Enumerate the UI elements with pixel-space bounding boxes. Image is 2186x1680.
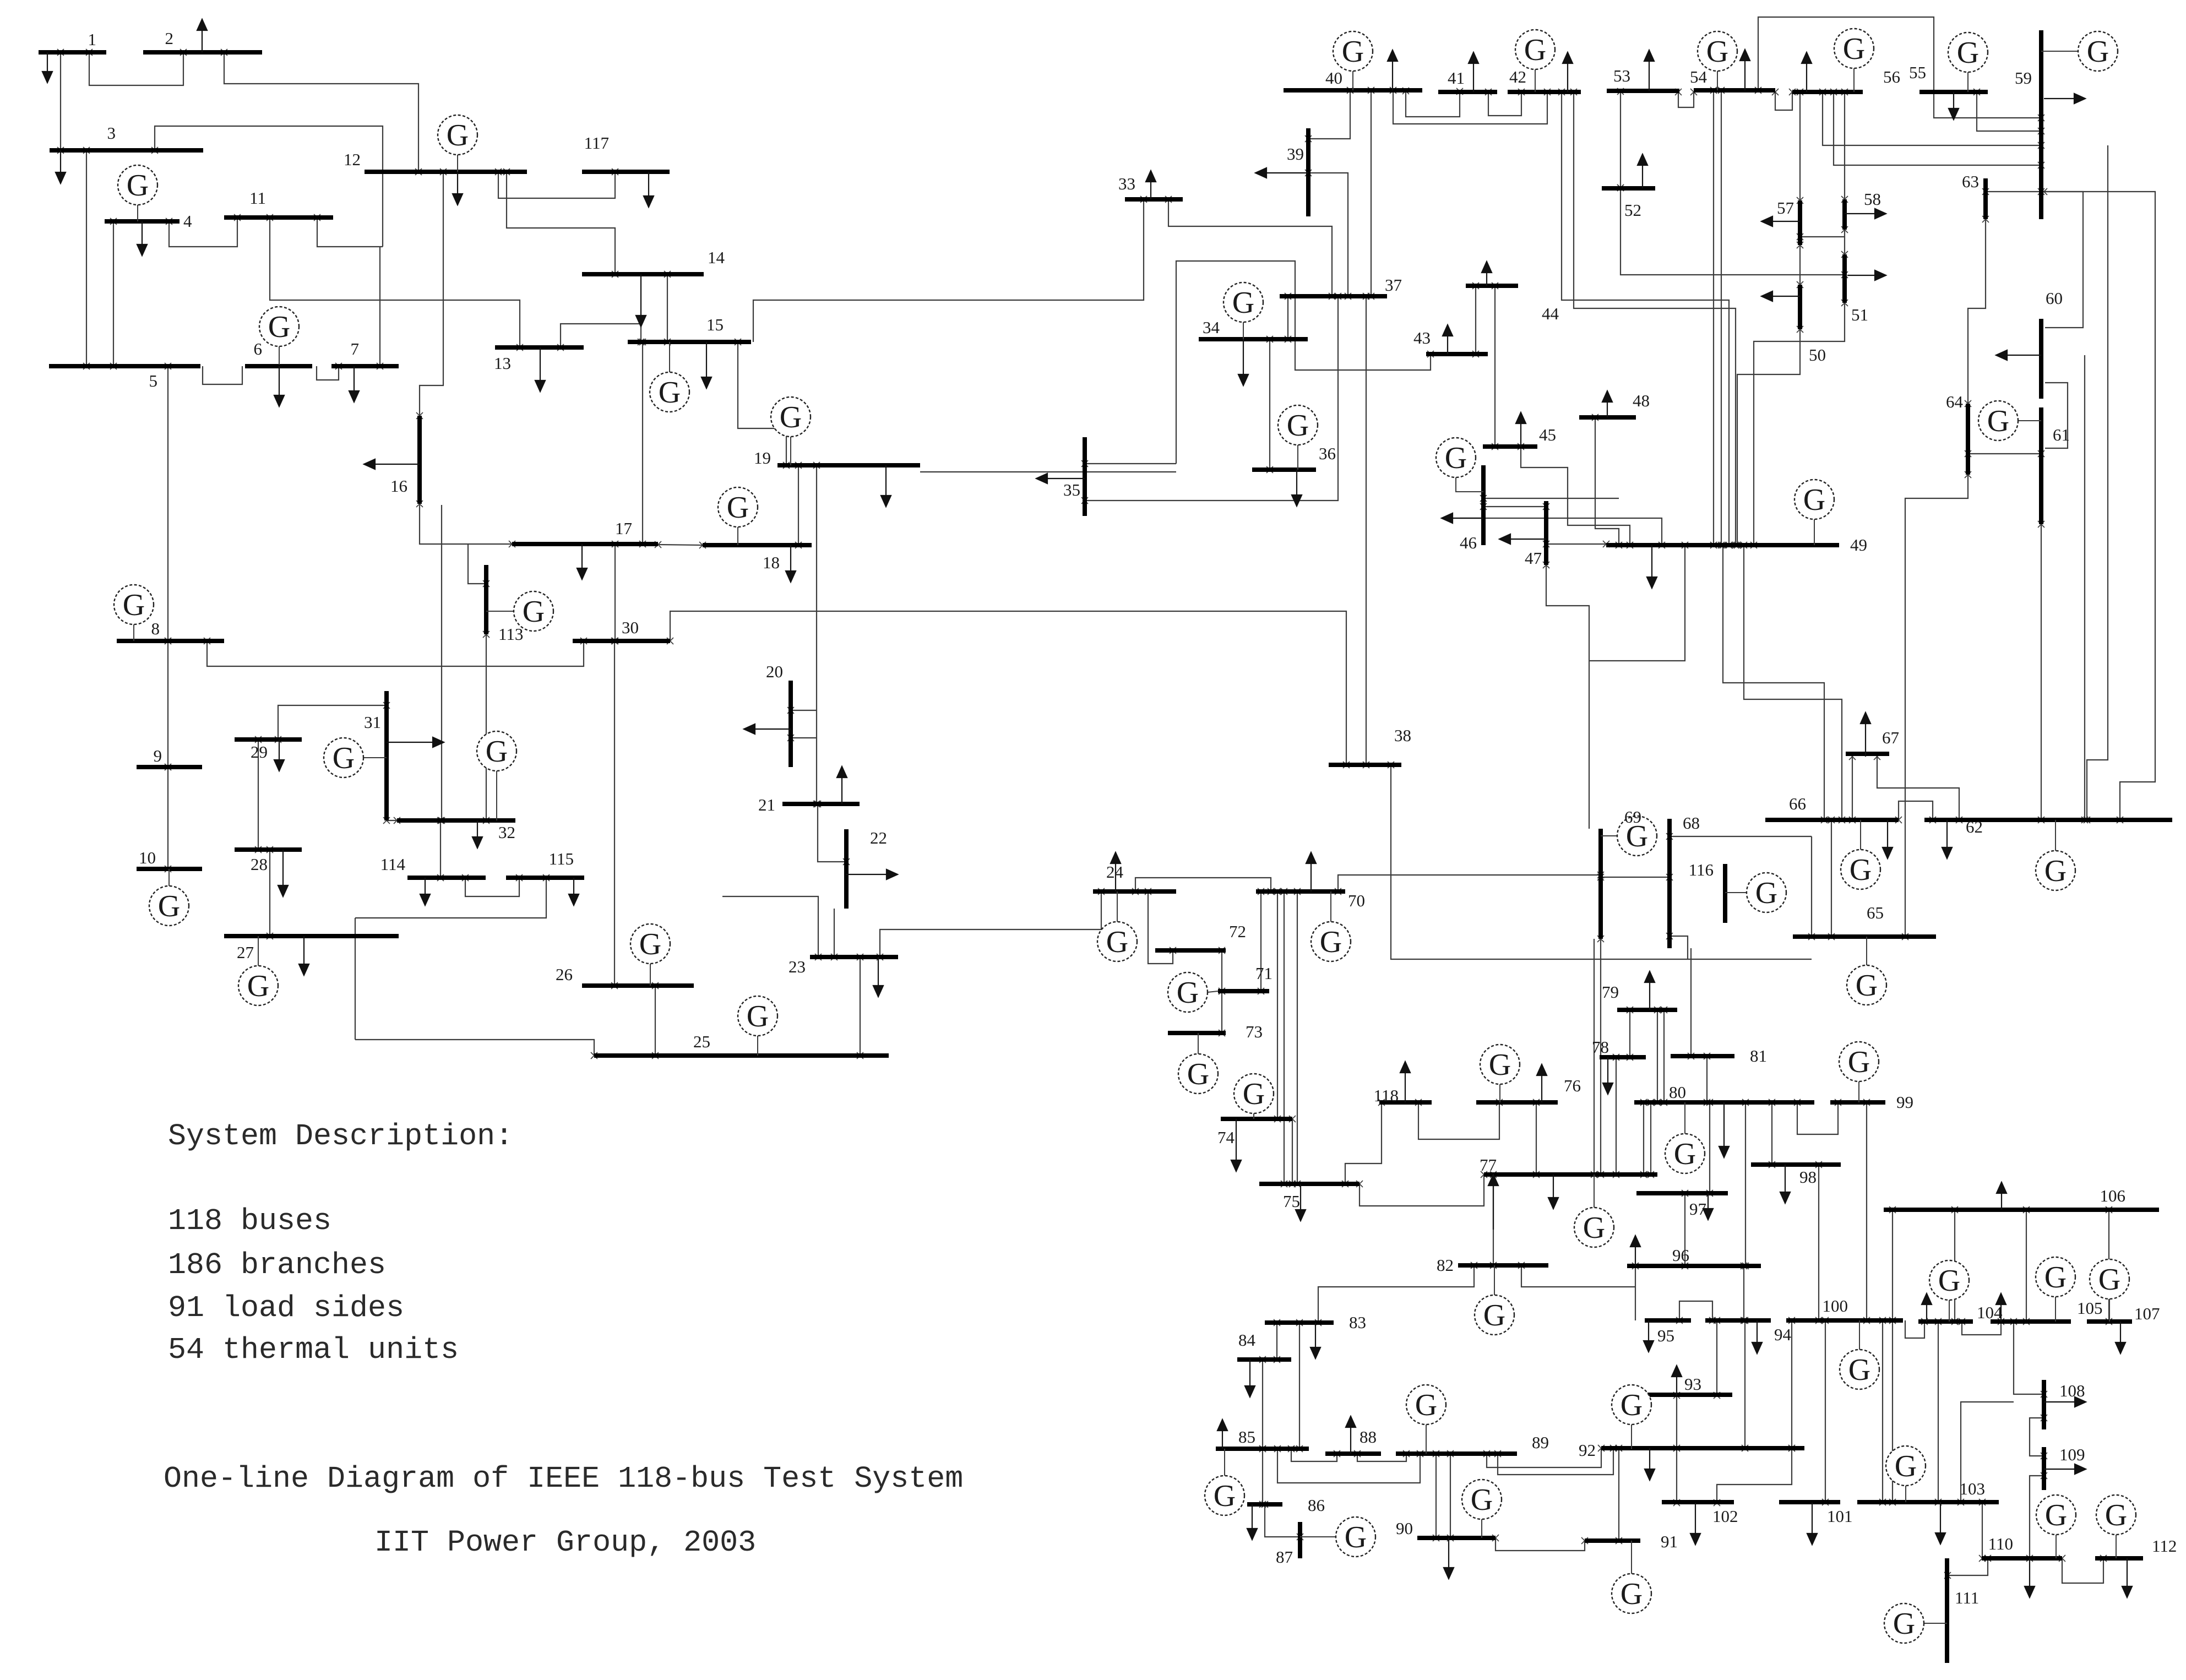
load arrow xyxy=(142,221,143,244)
bus 44 xyxy=(1466,284,1518,288)
svg-text:115: 115 xyxy=(549,849,574,868)
svg-text:G: G xyxy=(247,969,269,1003)
svg-text:G: G xyxy=(1850,853,1872,887)
svg-text:24: 24 xyxy=(1106,862,1124,882)
svg-text:G: G xyxy=(1621,1388,1643,1422)
svg-text:G: G xyxy=(2098,1263,2120,1297)
wire w42 xyxy=(816,465,817,804)
bus 41 xyxy=(1438,90,1497,94)
bus 81 xyxy=(1671,1054,1734,1058)
bus 40 xyxy=(1284,88,1422,93)
bus 102 xyxy=(1662,1500,1734,1504)
svg-text:72: 72 xyxy=(1229,922,1246,941)
svg-text:98: 98 xyxy=(1799,1167,1817,1187)
svg-text:111: 111 xyxy=(1955,1588,1979,1607)
svg-text:17: 17 xyxy=(615,519,632,538)
svg-text:G: G xyxy=(1755,876,1777,910)
wire w150 xyxy=(1866,1102,1867,1320)
wire w58 xyxy=(1371,90,1372,296)
wire w155 xyxy=(1265,1504,1300,1537)
wire w35 xyxy=(387,820,397,821)
wire w3 xyxy=(86,150,87,366)
load arrow xyxy=(279,740,280,760)
wire w122 xyxy=(1284,891,1285,1184)
load arrow xyxy=(755,728,791,730)
load arrow xyxy=(477,820,478,837)
svg-text:45: 45 xyxy=(1539,425,1556,444)
bus 68 xyxy=(1667,819,1672,948)
svg-text:G: G xyxy=(2044,1260,2067,1295)
wire w100 xyxy=(2084,355,2085,820)
bus 96 xyxy=(1627,1264,1761,1268)
wire w48 xyxy=(880,891,1101,957)
generator G73 xyxy=(1198,1033,1199,1054)
bus 45 xyxy=(1483,444,1537,449)
bus 2 xyxy=(143,50,262,55)
bus 4 xyxy=(105,219,180,224)
bus 32 xyxy=(397,818,515,823)
wire w117 xyxy=(1135,878,1271,891)
wire w77 xyxy=(1713,90,1714,545)
bus 42 xyxy=(1508,90,1581,94)
wire w143 xyxy=(1743,1266,1744,1320)
svg-text:43: 43 xyxy=(1413,328,1431,347)
load arrow xyxy=(1115,863,1116,891)
load arrow xyxy=(354,366,355,391)
generator G62 xyxy=(2055,820,2056,851)
svg-text:G: G xyxy=(1843,32,1865,66)
generator G71 xyxy=(1208,991,1218,992)
wire w134 xyxy=(1629,1010,1630,1057)
wire w142 xyxy=(1635,1266,1636,1320)
wire w95 xyxy=(2045,192,2083,328)
wire w83 xyxy=(1977,92,2041,131)
svg-text:42: 42 xyxy=(1509,67,1526,86)
wire w55 xyxy=(1085,296,1338,501)
wire w50 xyxy=(1168,199,1332,296)
wire w89 xyxy=(1799,245,1801,285)
wire w78 xyxy=(1721,90,1722,545)
load arrow xyxy=(1520,423,1521,447)
svg-text:G: G xyxy=(1483,1298,1505,1333)
svg-text:95: 95 xyxy=(1657,1326,1674,1345)
generator G24 xyxy=(1117,891,1118,922)
generator G12 xyxy=(457,155,458,172)
bus 8 xyxy=(117,639,224,643)
svg-text:13: 13 xyxy=(494,354,511,373)
svg-text:11: 11 xyxy=(249,188,266,208)
wire w152 xyxy=(1299,1323,1300,1449)
svg-text:77: 77 xyxy=(1480,1155,1497,1175)
svg-text:14: 14 xyxy=(708,248,725,267)
generator G105 xyxy=(2055,1297,2056,1322)
wire w144 xyxy=(1684,1193,1685,1266)
load arrow xyxy=(1847,275,1875,276)
wire w163 xyxy=(1496,1538,1585,1551)
load arrow xyxy=(1252,1504,1253,1529)
svg-text:G: G xyxy=(1848,1353,1870,1387)
wire w105 xyxy=(1831,820,1832,937)
wire w16 xyxy=(507,172,615,274)
generator G74 xyxy=(1253,1113,1254,1119)
wire w11 xyxy=(167,366,168,641)
svg-text:15: 15 xyxy=(706,315,724,334)
wire w139 xyxy=(1493,1175,1494,1265)
svg-text:G: G xyxy=(1489,1048,1511,1082)
load arrow xyxy=(790,545,791,571)
generator G107 xyxy=(2109,1299,2110,1322)
bus 114 xyxy=(407,876,486,880)
svg-text:54 thermal units: 54 thermal units xyxy=(168,1333,459,1367)
wire w129 xyxy=(1360,1175,1484,1206)
load arrow xyxy=(1453,518,1483,519)
bus 10 xyxy=(137,867,202,871)
load arrow xyxy=(1695,1503,1696,1534)
svg-text:36: 36 xyxy=(1319,444,1336,463)
wire w40 xyxy=(355,1040,594,1056)
wire w120 xyxy=(1600,939,1601,1175)
svg-text:117: 117 xyxy=(584,133,609,153)
svg-text:G: G xyxy=(1187,1057,1209,1091)
svg-text:G: G xyxy=(1232,286,1254,320)
bus 117 xyxy=(582,170,670,174)
load arrow xyxy=(573,878,574,894)
wire w132 xyxy=(1536,1102,1537,1175)
wire w147 xyxy=(1771,1102,1772,1165)
bus 31 xyxy=(384,691,389,820)
load arrow xyxy=(2000,1304,2002,1322)
wire w22 xyxy=(642,342,643,544)
svg-text:25: 25 xyxy=(693,1032,710,1051)
generator G8 xyxy=(133,624,134,641)
svg-text:113: 113 xyxy=(498,624,523,644)
bus 97 xyxy=(1636,1191,1728,1195)
load arrow xyxy=(1607,402,1608,417)
wire w118 xyxy=(1148,891,1173,964)
svg-text:G: G xyxy=(2044,854,2067,888)
bus 103 xyxy=(1857,1500,1999,1504)
svg-text:48: 48 xyxy=(1633,391,1650,410)
wire w93 xyxy=(1754,303,1845,545)
svg-text:19: 19 xyxy=(754,448,771,467)
generator G66 xyxy=(1860,820,1861,850)
wire w82 xyxy=(1758,17,2041,118)
wire w181 xyxy=(2014,1322,2044,1394)
generator G113 xyxy=(486,611,514,612)
wire w51 xyxy=(753,199,1144,342)
wire w53 xyxy=(1176,261,1431,464)
wire w7 xyxy=(113,221,114,366)
svg-text:52: 52 xyxy=(1624,200,1641,220)
svg-text:6: 6 xyxy=(254,339,263,358)
svg-text:G: G xyxy=(639,927,661,961)
svg-text:2: 2 xyxy=(165,29,174,48)
bus 74 xyxy=(1221,1117,1292,1121)
bus 29 xyxy=(235,737,302,742)
bus 56 xyxy=(1792,90,1863,94)
svg-text:34: 34 xyxy=(1203,318,1220,337)
svg-text:22: 22 xyxy=(870,828,887,847)
load arrow xyxy=(375,464,420,465)
wire w185 xyxy=(1938,1322,1939,1502)
wire w12 xyxy=(167,641,168,767)
load arrow xyxy=(1296,470,1297,495)
wire w39 xyxy=(355,878,546,918)
bus 87 xyxy=(1298,1522,1302,1558)
bus 11 xyxy=(224,215,333,220)
wire w19 xyxy=(561,324,641,347)
generator G61 xyxy=(2018,420,2041,421)
generator G26 xyxy=(650,964,651,986)
svg-text:G: G xyxy=(1987,404,2009,438)
wire w161 xyxy=(1487,1448,1601,1467)
bus 85 xyxy=(1216,1447,1309,1451)
load arrow xyxy=(1649,982,1650,1010)
wire w62 xyxy=(1562,92,1729,545)
wire w15 xyxy=(498,172,615,198)
svg-text:IIT Power Group, 2003: IIT Power Group, 2003 xyxy=(374,1525,756,1560)
wire w102 xyxy=(2087,145,2108,820)
bus 48 xyxy=(1579,415,1636,420)
wire w34 xyxy=(269,850,270,936)
svg-text:1: 1 xyxy=(88,30,97,49)
generator G70 xyxy=(1330,891,1331,922)
svg-text:62: 62 xyxy=(1966,817,1983,836)
bus 54 xyxy=(1694,88,1775,93)
bus 69 xyxy=(1598,829,1603,939)
svg-text:87: 87 xyxy=(1276,1547,1293,1567)
load arrow xyxy=(540,347,541,380)
generator G49 xyxy=(1814,519,1815,545)
wire w0 xyxy=(89,52,183,85)
bus 64 xyxy=(1966,404,1970,475)
svg-text:G: G xyxy=(780,400,802,434)
bus 110 xyxy=(1982,1556,2062,1561)
wire w80 xyxy=(1678,92,1694,107)
svg-text:System Description:: System Description: xyxy=(168,1119,513,1154)
svg-text:81: 81 xyxy=(1750,1046,1767,1065)
svg-text:91: 91 xyxy=(1661,1532,1678,1551)
generator G100 xyxy=(1859,1320,1860,1350)
generator G92 xyxy=(1631,1425,1632,1449)
bus 88 xyxy=(1325,1451,1381,1456)
bus 23 xyxy=(810,955,898,959)
wire w24 xyxy=(798,465,799,545)
wire w41 xyxy=(655,986,656,1056)
wire w54 xyxy=(920,471,1176,472)
bus 90 xyxy=(1417,1536,1496,1540)
svg-text:86: 86 xyxy=(1308,1496,1325,1515)
svg-text:67: 67 xyxy=(1882,728,1899,747)
wire w26 xyxy=(615,544,616,641)
svg-text:G: G xyxy=(1803,483,1825,517)
load arrow xyxy=(202,30,203,52)
wire w109 xyxy=(1744,545,1842,820)
svg-text:110: 110 xyxy=(1988,1534,2013,1553)
svg-text:66: 66 xyxy=(1789,794,1806,813)
bus 118 xyxy=(1379,1100,1432,1105)
generator G54 xyxy=(1717,71,1718,90)
wire w159 xyxy=(1435,1454,1437,1538)
bus 57 xyxy=(1798,200,1802,245)
load arrow xyxy=(1649,61,1650,91)
wire w30 xyxy=(468,544,486,584)
load arrow xyxy=(1953,92,1954,108)
svg-text:65: 65 xyxy=(1867,903,1884,922)
wire w60 xyxy=(1488,92,1521,116)
svg-text:106: 106 xyxy=(2100,1186,2126,1205)
wire w13 xyxy=(167,767,168,869)
bus 109 xyxy=(2042,1447,2046,1490)
bus 116 xyxy=(1723,864,1727,923)
bus 52 xyxy=(1602,186,1655,191)
wire w86 xyxy=(1799,92,1801,200)
wire w165 xyxy=(1676,1395,1677,1448)
svg-text:33: 33 xyxy=(1118,174,1135,193)
wire w27 xyxy=(670,611,1346,765)
load arrow xyxy=(640,274,641,316)
wire w103 xyxy=(2044,192,2155,820)
wire w184 xyxy=(2030,1476,2044,1558)
wire w112 xyxy=(1811,836,1812,937)
bus 53 xyxy=(1607,89,1679,93)
svg-text:59: 59 xyxy=(2015,68,2032,88)
svg-text:53: 53 xyxy=(1613,66,1630,85)
generator G89 xyxy=(1426,1425,1427,1454)
load arrow xyxy=(878,957,879,986)
bus 22 xyxy=(844,829,849,909)
generator G4 xyxy=(137,205,138,221)
svg-text:7: 7 xyxy=(351,339,360,358)
bus 105 xyxy=(1991,1319,2071,1324)
wire w135 xyxy=(1657,1010,1658,1102)
wire w71 xyxy=(1483,498,1619,499)
bus 84 xyxy=(1237,1357,1291,1362)
wire w32 xyxy=(278,705,387,740)
svg-text:78: 78 xyxy=(1592,1037,1609,1057)
bus 21 xyxy=(782,802,860,806)
bus 112 xyxy=(2095,1556,2143,1561)
svg-text:G: G xyxy=(1583,1211,1605,1245)
svg-text:49: 49 xyxy=(1850,535,1867,554)
load arrow xyxy=(1812,1503,1813,1534)
svg-text:G: G xyxy=(1957,36,1979,70)
load arrow xyxy=(1865,724,1866,757)
svg-text:39: 39 xyxy=(1287,144,1304,164)
svg-text:G: G xyxy=(123,588,145,622)
bus 27 xyxy=(224,934,399,938)
load arrow xyxy=(1772,221,1800,222)
bus 50 xyxy=(1798,285,1802,329)
bus 28 xyxy=(235,847,302,852)
bus 13 xyxy=(495,345,584,350)
wire w136 xyxy=(1663,1010,1665,1102)
svg-text:118: 118 xyxy=(1374,1086,1399,1105)
bus 92 xyxy=(1601,1446,1804,1450)
svg-text:G: G xyxy=(2045,1498,2067,1532)
svg-text:5: 5 xyxy=(149,371,158,390)
svg-text:103: 103 xyxy=(1960,1479,1986,1498)
load arrow xyxy=(1243,339,1244,374)
load arrow xyxy=(60,150,61,172)
svg-text:G: G xyxy=(1848,1045,1870,1079)
bus 99 xyxy=(1830,1100,1885,1105)
svg-text:60: 60 xyxy=(2046,289,2063,308)
wire w146 xyxy=(1745,1102,1746,1266)
bus 6 xyxy=(245,364,312,368)
load arrow xyxy=(47,52,48,72)
bus 65 xyxy=(1793,934,1936,939)
wire w97 xyxy=(1968,219,1986,404)
svg-text:63: 63 xyxy=(1962,172,1979,191)
wire w138 xyxy=(1650,1102,1651,1175)
wire w65 xyxy=(1494,286,1496,447)
svg-text:G: G xyxy=(1938,1264,1960,1298)
svg-text:76: 76 xyxy=(1564,1076,1581,1095)
wire w1 xyxy=(60,52,61,150)
load arrow xyxy=(1300,1184,1301,1210)
generator G36 xyxy=(1297,445,1298,470)
svg-text:26: 26 xyxy=(556,965,573,984)
generator G104 xyxy=(1949,1300,1950,1322)
wire w169 xyxy=(1744,1320,1745,1448)
wire w79 xyxy=(1620,91,1621,188)
bus 1 xyxy=(39,50,106,55)
wire w45 xyxy=(818,804,846,862)
wire w127 xyxy=(1221,950,1222,991)
generator G80 xyxy=(1684,1102,1685,1134)
generator G65 xyxy=(1866,937,1867,965)
svg-text:57: 57 xyxy=(1777,198,1794,218)
svg-text:84: 84 xyxy=(1238,1330,1256,1350)
svg-text:85: 85 xyxy=(1238,1427,1255,1447)
svg-text:27: 27 xyxy=(237,943,254,962)
svg-text:94: 94 xyxy=(1774,1325,1792,1344)
svg-text:One-line Diagram of IEEE 118-b: One-line Diagram of IEEE 118-bus Test Sy… xyxy=(164,1461,963,1496)
bus 51 xyxy=(1842,254,1847,303)
svg-text:102: 102 xyxy=(1712,1507,1738,1526)
generator G82 xyxy=(1494,1265,1495,1295)
bus 93 xyxy=(1644,1393,1732,1397)
bus 55 xyxy=(1919,90,1988,94)
load arrow xyxy=(2127,1558,2128,1586)
bus 18 xyxy=(703,543,812,547)
svg-text:118 buses: 118 buses xyxy=(168,1204,331,1238)
wire w21 xyxy=(420,504,512,544)
load arrow xyxy=(1222,1431,1223,1449)
bus 62 xyxy=(1924,818,2172,822)
wire w61 xyxy=(1393,90,1547,124)
bus 115 xyxy=(506,876,584,880)
generator G40 xyxy=(1352,71,1353,90)
wire w182 xyxy=(1961,1402,2014,1502)
wire w81 xyxy=(1775,92,1792,110)
load arrow xyxy=(1887,820,1888,847)
wire w47 xyxy=(860,957,861,1056)
svg-text:20: 20 xyxy=(766,662,783,681)
load arrow xyxy=(841,778,842,804)
bus 49 xyxy=(1606,543,1839,547)
wire w187 xyxy=(1948,1558,1988,1575)
wire w46 xyxy=(834,909,835,957)
wire w68 xyxy=(1269,339,1270,470)
load arrow xyxy=(1486,273,1487,286)
svg-text:10: 10 xyxy=(139,848,156,867)
wire w44 xyxy=(791,737,817,738)
load arrow xyxy=(1405,1073,1406,1102)
wire w119 xyxy=(1338,875,1601,891)
wire w88 xyxy=(1800,236,1845,237)
